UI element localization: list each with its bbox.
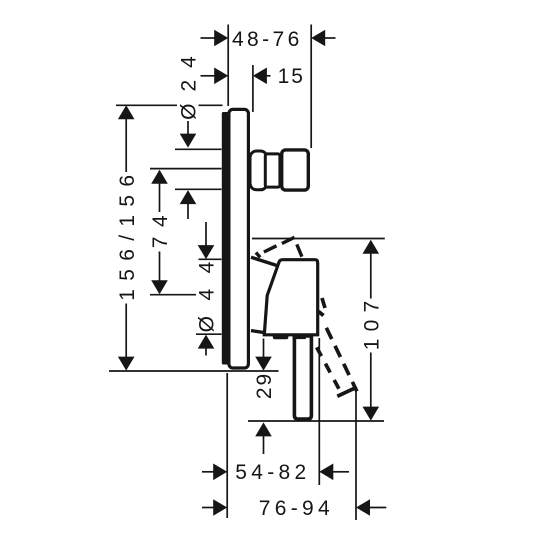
lever in down position bbox=[294, 336, 311, 419]
handle neck top line bbox=[251, 257, 280, 266]
reference line knob top bbox=[175, 148, 222, 150]
handle bottom tabs bbox=[273, 334, 289, 339]
dashed lever pulled position: end cap bbox=[337, 388, 354, 396]
dimension 29 bbox=[253, 339, 276, 455]
extension line left of plate top (wall line) bbox=[227, 25, 229, 107]
dimension 156/156 (plate height) bbox=[116, 105, 139, 370]
wall plate outline bbox=[229, 109, 249, 368]
extension line knob right bbox=[310, 25, 312, 149]
dimension 48-76 bbox=[201, 28, 336, 51]
reference line lever top position (107) bbox=[252, 238, 385, 240]
svg-text:15: 15 bbox=[278, 65, 305, 88]
knob head bbox=[282, 150, 309, 190]
dimension 76-94 bbox=[202, 497, 386, 520]
svg-text:107: 107 bbox=[361, 294, 384, 351]
knob bulge at plate bbox=[250, 151, 267, 190]
dashed lever pulled position: right edge bbox=[323, 322, 357, 392]
dimension 15 bbox=[201, 65, 305, 88]
left arrowhead bbox=[214, 30, 228, 47]
right arrow tail bbox=[267, 75, 271, 77]
extension line plate front (for 15) bbox=[252, 65, 254, 112]
dashed lever up position: top edge dash 1 bbox=[264, 246, 277, 252]
reference line lever bottom bbox=[248, 420, 384, 422]
handle neck bottom line bbox=[251, 331, 266, 333]
svg-text:74: 74 bbox=[149, 206, 172, 248]
dashed lever up position: top edge dash 2 bbox=[282, 237, 295, 243]
knob stem bbox=[265, 154, 280, 187]
svg-text:48-76: 48-76 bbox=[232, 28, 303, 51]
svg-text:Ø24: Ø24 bbox=[178, 44, 201, 120]
dimension 107 (lever travel) bbox=[361, 240, 384, 421]
dimension 74 bbox=[149, 170, 172, 294]
svg-text:29: 29 bbox=[253, 372, 276, 399]
right arrow tail bbox=[325, 37, 336, 39]
extension line wall bottom bbox=[226, 373, 228, 518]
reference line plate top bbox=[116, 104, 177, 106]
lever top collar bbox=[293, 335, 306, 340]
left arrowhead bbox=[214, 68, 228, 85]
dashed lever pulled position: left edge bbox=[313, 340, 340, 391]
reference line handle centre bbox=[150, 294, 196, 296]
handle escutcheon body bbox=[264, 260, 317, 335]
reference line plate bottom bbox=[109, 370, 279, 372]
dashed lever up position: tip cap bbox=[256, 253, 260, 258]
dimension Ø44 (handle escutcheon) bbox=[196, 222, 219, 356]
reference line handle bottom bbox=[196, 333, 222, 335]
left arrow tail bbox=[201, 75, 216, 77]
dimension 54-82 bbox=[202, 461, 349, 484]
left arrow tail bbox=[201, 37, 216, 39]
svg-text:76-94: 76-94 bbox=[259, 497, 334, 520]
wall plate flange (thick wall-side bar) bbox=[222, 112, 229, 365]
right arrowhead bbox=[253, 68, 267, 85]
reference line handle top bbox=[199, 258, 222, 260]
extension line lever tip bottom bbox=[355, 387, 357, 520]
svg-text:54-82: 54-82 bbox=[235, 461, 310, 484]
dimension Ø24 (knob) bbox=[178, 44, 201, 219]
dashed lever up position: right edge dash bbox=[297, 244, 302, 256]
svg-text:156/156: 156/156 bbox=[116, 167, 139, 301]
reference line knob centre bbox=[150, 168, 222, 170]
reference line knob bottom bbox=[175, 188, 222, 190]
dashed lever pulled position: pivot arc dashes bbox=[322, 298, 325, 308]
svg-text:Ø44: Ø44 bbox=[196, 246, 219, 332]
extension line handle front bottom bbox=[318, 338, 320, 485]
right arrowhead bbox=[311, 30, 325, 47]
